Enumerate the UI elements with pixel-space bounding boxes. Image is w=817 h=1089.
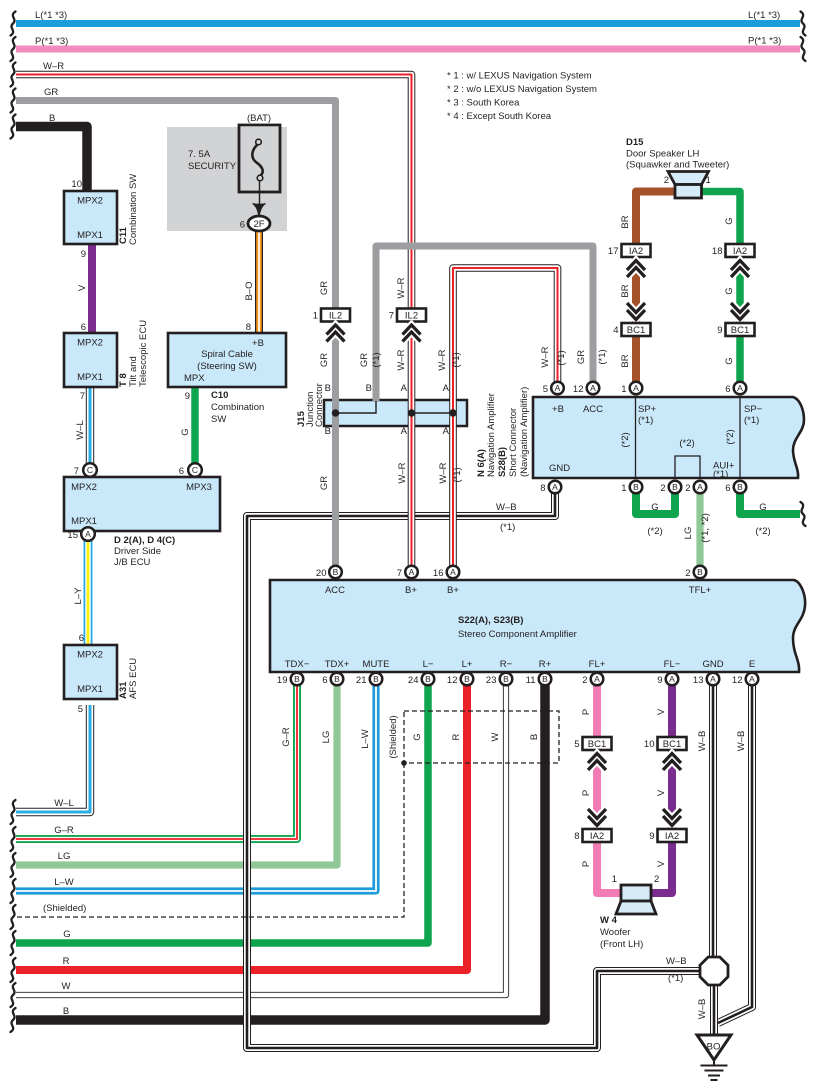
svg-text:B+: B+ (447, 585, 459, 596)
svg-text:IA2: IA2 (590, 831, 604, 842)
svg-text:R: R (63, 956, 70, 967)
svg-text:18: 18 (712, 246, 723, 257)
svg-text:Combination: Combination (211, 402, 264, 413)
svg-text:MPX1: MPX1 (77, 230, 103, 241)
connector 1 IL2 (313, 309, 350, 322)
svg-text:* 4 : Except South Korea: * 4 : Except South Korea (447, 111, 552, 122)
svg-text:B: B (334, 674, 340, 684)
break mark right G (*2) (801, 502, 806, 526)
svg-text:L−: L− (423, 659, 434, 670)
pin 2(B) nav (669, 481, 682, 494)
svg-text:MPX2: MPX2 (71, 482, 97, 493)
svg-text:W–L: W–L (75, 420, 86, 440)
svg-text:FL+: FL+ (589, 659, 606, 670)
svg-text:W–B: W–B (697, 999, 708, 1020)
pin 7(A) amp B+ (405, 566, 418, 579)
wire LG (*1 *2) from nav amp 2(A) to stereo amp TFL+ (696, 493, 703, 566)
svg-text:R−: R− (500, 659, 513, 670)
svg-text:1: 1 (621, 483, 626, 494)
svg-text:GND: GND (549, 463, 570, 474)
svg-text:9: 9 (649, 831, 654, 842)
svg-text:16: 16 (433, 568, 444, 579)
wire W-L from T8 pin 7 to 7(C) (86, 387, 94, 464)
svg-text:B: B (503, 674, 509, 684)
svg-text:J/B ECU: J/B ECU (114, 557, 151, 568)
svg-text:GR: GR (576, 350, 587, 364)
chevron above 9 IA2 (663, 809, 681, 826)
break mark left B (11, 115, 16, 139)
svg-text:(*2): (*2) (725, 429, 736, 444)
splice octagon (700, 957, 728, 985)
svg-text:12: 12 (732, 675, 743, 686)
svg-text:(*1): (*1) (371, 352, 382, 367)
chevron below 5 BC1 (588, 754, 606, 771)
connector 7(C) (83, 463, 97, 477)
svg-text:G: G (180, 428, 191, 435)
svg-text:BO: BO (707, 1042, 721, 1053)
svg-text:MPX2: MPX2 (77, 338, 103, 349)
pin 24(B) amp L- (422, 673, 435, 686)
svg-text:W–B: W–B (736, 731, 747, 752)
svg-text:(*1): (*1) (713, 469, 728, 480)
svg-text:W–R: W–R (540, 346, 551, 367)
svg-text:C: C (87, 465, 93, 475)
wire L-Y from D2 pin 15 to AFS ECU pin 6 (84, 541, 93, 645)
pin 6(A) nav SP- (734, 382, 747, 395)
break mark right L (801, 12, 806, 36)
svg-text:B: B (373, 674, 379, 684)
svg-text:B: B (633, 482, 639, 492)
woofer W4 symbol (616, 885, 656, 914)
wire V from C11 pin 9 to T8 pin 6 (88, 244, 96, 333)
svg-text:V: V (656, 860, 667, 867)
svg-text:9: 9 (657, 675, 662, 686)
svg-text:B: B (294, 674, 300, 684)
svg-text:C10: C10 (211, 390, 228, 401)
svg-text:(*1): (*1) (500, 522, 515, 533)
chevron below 17 IA2 (627, 261, 645, 278)
svg-text:GR: GR (319, 476, 330, 490)
svg-text:A: A (450, 567, 456, 577)
svg-text:1: 1 (612, 874, 617, 885)
svg-text:SW: SW (211, 414, 226, 425)
svg-text:13: 13 (693, 675, 704, 686)
break mark left G (11, 931, 16, 955)
svg-text:B: B (366, 383, 372, 394)
junction connector J15 box (324, 400, 467, 426)
svg-text:7. 5A: 7. 5A (188, 149, 211, 160)
svg-text:L+: L+ (462, 659, 473, 670)
svg-text:A: A (443, 426, 450, 437)
svg-text:A: A (697, 482, 703, 492)
svg-text:6: 6 (725, 483, 730, 494)
ground BO triangle (697, 1035, 731, 1060)
break mark left G-R (11, 827, 16, 851)
wire G (*2) U-link between nav amp 1(B) and 2(B) (636, 493, 675, 514)
break mark right P (801, 37, 806, 61)
chevron above 4 BC1 (627, 303, 645, 320)
svg-text:G: G (724, 287, 735, 294)
wire W-L from AFS ECU pin 5 to left edge (16, 705, 90, 812)
wire W-B from splice to ground BO (710, 984, 718, 1036)
svg-text:B: B (425, 674, 431, 684)
svg-text:+B: +B (552, 404, 564, 415)
svg-text:FL−: FL− (664, 659, 681, 670)
svg-text:(*1): (*1) (638, 415, 653, 426)
svg-text:E: E (749, 659, 755, 670)
svg-text:G–R: G–R (281, 727, 292, 747)
svg-text:G–R: G–R (54, 825, 74, 836)
svg-text:Stereo Component Amplifier: Stereo Component Amplifier (458, 629, 577, 640)
svg-text:1: 1 (313, 311, 318, 322)
nav amp internal link 1(A)-1(B) (*2) (635, 397, 637, 478)
svg-text:G: G (724, 217, 735, 224)
pin 12(B) amp L+ (461, 673, 474, 686)
break mark left LG (11, 853, 16, 877)
svg-text:* 1 : w/ LEXUS Navigation Syst: * 1 : w/ LEXUS Navigation System (447, 71, 592, 82)
connector 8 IA2 (574, 829, 611, 842)
svg-text:Spiral Cable: Spiral Cable (201, 349, 253, 360)
svg-text:Navigation Amplifier: Navigation Amplifier (486, 393, 497, 477)
svg-text:8: 8 (540, 483, 545, 494)
svg-text:19: 19 (277, 675, 288, 686)
svg-text:A: A (443, 383, 450, 394)
chevron below 7 IL2 (403, 325, 421, 342)
navigation amplifier N6(A)/S28(B) box (533, 397, 804, 478)
svg-text:A: A (669, 674, 675, 684)
svg-text:2: 2 (664, 175, 669, 186)
svg-text:(BAT): (BAT) (247, 113, 271, 124)
svg-text:B: B (333, 567, 339, 577)
svg-text:9: 9 (185, 391, 190, 402)
svg-text:6: 6 (179, 466, 184, 477)
wire W-B (*1) from navigation amplifier GND to splice (247, 493, 700, 1048)
pin 9(A) amp FL- (666, 673, 679, 686)
wire B from left edge to combination SW pin 10 (16, 127, 87, 192)
wire G (*2) from nav amp 6(B) to right edge (740, 493, 800, 514)
wire BR from door speaker pin 2 to nav amp SP+ (636, 192, 676, 383)
svg-text:P: P (581, 709, 592, 715)
svg-text:(*1): (*1) (452, 467, 463, 482)
svg-text:+B: +B (252, 338, 264, 349)
tilt and telescopic ECU T8 box (64, 333, 117, 387)
svg-text:ACC: ACC (325, 585, 345, 596)
fuse element symbol (252, 145, 262, 176)
svg-text:V: V (656, 708, 667, 715)
connector 7 IL2 (389, 309, 426, 322)
svg-text:7: 7 (389, 311, 394, 322)
svg-text:(*2): (*2) (755, 526, 770, 537)
svg-text:Combination SW: Combination SW (128, 174, 139, 245)
svg-text:6: 6 (725, 384, 730, 395)
svg-text:A: A (737, 383, 743, 393)
svg-text:9: 9 (81, 249, 86, 260)
svg-text:B: B (325, 426, 331, 437)
driver side J/B ECU D2 box (64, 477, 220, 531)
svg-text:MPX3: MPX3 (186, 482, 212, 493)
svg-text:A: A (409, 567, 415, 577)
svg-text:G: G (412, 733, 423, 740)
svg-text:SP+: SP+ (638, 404, 657, 415)
svg-text:15: 15 (67, 530, 78, 541)
svg-text:5: 5 (543, 384, 548, 395)
svg-text:2: 2 (685, 483, 690, 494)
svg-text:W–R: W–R (43, 61, 64, 72)
wire W-B from stereo amp GND to splice (709, 685, 717, 958)
svg-text:TFL+: TFL+ (689, 585, 712, 596)
pin 12(A) amp E (746, 673, 759, 686)
svg-text:B: B (464, 674, 470, 684)
svg-text:(Navigation Amplifier): (Navigation Amplifier) (519, 387, 530, 477)
combination SW C11 box (64, 191, 117, 244)
svg-text:6: 6 (81, 322, 86, 333)
pin 19(B) amp TDX- (291, 673, 304, 686)
wire B-O from fuse 2F to spiral cable +B (255, 231, 263, 333)
svg-text:G: G (63, 929, 70, 940)
connector 9 IA2 (649, 829, 686, 842)
wire G from door speaker pin 1 to nav amp SP- (701, 192, 740, 383)
wire G from L- to left edge (16, 685, 428, 943)
svg-text:D 2(A), D 4(C): D 2(A), D 4(C) (114, 535, 175, 546)
svg-text:(Shielded): (Shielded) (43, 903, 86, 914)
svg-text:A: A (710, 674, 716, 684)
wire LG from TDX+ to left edge (16, 685, 337, 865)
svg-text:(*1): (*1) (668, 973, 683, 984)
svg-text:2: 2 (685, 568, 690, 579)
wire W-R (*1) from navigation amplifier +B through J15 to stereo amp B+ (453, 268, 558, 566)
svg-text:G: G (759, 502, 766, 513)
svg-text:6: 6 (322, 675, 327, 686)
svg-text:17: 17 (608, 246, 619, 257)
svg-text:B: B (325, 383, 331, 394)
svg-text:W–L: W–L (54, 798, 74, 809)
svg-text:A: A (85, 529, 91, 539)
svg-text:20: 20 (316, 568, 327, 579)
svg-text:LG: LG (683, 527, 694, 540)
svg-text:24: 24 (408, 675, 419, 686)
pin 16(A) amp B+ (447, 566, 460, 579)
svg-text:B: B (63, 1006, 69, 1017)
chevron above 9 BC1 (731, 303, 749, 320)
AFS ECU A31 box (64, 645, 117, 699)
wire L-W from MUTE to left edge (16, 685, 376, 891)
svg-text:V: V (77, 284, 88, 291)
svg-text:V: V (656, 789, 667, 796)
chevron below 18 IA2 (731, 261, 749, 278)
svg-text:1: 1 (621, 384, 626, 395)
wire P from stereo amp FL+ to woofer pin 1 (597, 685, 622, 893)
svg-text:BC1: BC1 (731, 325, 749, 336)
wire R from L+ to left edge (16, 685, 467, 970)
svg-text:A: A (401, 426, 408, 437)
svg-text:L(*1 *3): L(*1 *3) (35, 10, 67, 21)
svg-text:SECURITY: SECURITY (188, 161, 237, 172)
chevron below 10 BC1 (663, 754, 681, 771)
svg-text:S28(B): S28(B) (497, 447, 508, 477)
svg-text:C: C (192, 465, 198, 475)
svg-text:A: A (590, 383, 596, 393)
pin 8(A) nav GND (549, 481, 562, 494)
nav amp internal link 2(B)-2(A) (*2) (675, 456, 700, 478)
connector 18 IA2 (712, 244, 755, 257)
pin 2(A) nav (694, 481, 707, 494)
svg-text:(*2): (*2) (620, 432, 631, 447)
svg-text:Woofer: Woofer (600, 927, 630, 938)
wire G-R from TDX- to left edge (16, 685, 297, 839)
break mark left P (11, 37, 16, 61)
wire P pink horizontal (16, 46, 800, 53)
svg-text:21: 21 (356, 675, 367, 686)
pin 2(B) amp TFL+ (694, 566, 707, 579)
pin 11(B) amp R+ (539, 673, 552, 686)
svg-text:8: 8 (574, 831, 579, 842)
svg-text:Driver Side: Driver Side (114, 546, 161, 557)
svg-text:L–W: L–W (54, 877, 74, 888)
svg-text:11: 11 (526, 675, 536, 686)
svg-text:B: B (697, 567, 703, 577)
svg-text:L(*1 *3): L(*1 *3) (748, 10, 780, 21)
svg-text:2: 2 (660, 483, 665, 494)
svg-text:IA2: IA2 (665, 831, 679, 842)
pin 1(B) nav (630, 481, 643, 494)
svg-text:L–Y: L–Y (73, 587, 84, 605)
svg-text:P(*1 *3): P(*1 *3) (35, 36, 68, 47)
svg-text:BR: BR (620, 354, 631, 367)
fuse area shading (167, 127, 287, 231)
svg-text:GR: GR (319, 353, 330, 367)
connector 10 BC1 (644, 737, 687, 750)
svg-text:(*1, *2): (*1, *2) (700, 513, 711, 543)
svg-text:B: B (542, 674, 548, 684)
svg-text:BR: BR (620, 215, 631, 228)
svg-text:A: A (749, 674, 755, 684)
door speaker D15 symbol (668, 172, 709, 199)
svg-text:4: 4 (613, 325, 618, 336)
svg-text:W–B: W–B (496, 502, 517, 513)
wire W-R from left edge through IL2 and J15 to stereo amp B+ (16, 75, 412, 567)
svg-text:(*1): (*1) (556, 350, 567, 365)
chevron below 1 IL2 (327, 325, 345, 342)
svg-text:MPX1: MPX1 (77, 684, 103, 695)
svg-text:12: 12 (447, 675, 458, 686)
pin 13(A) amp GND (707, 673, 720, 686)
svg-text:A: A (401, 383, 408, 394)
svg-text:(*1): (*1) (744, 415, 759, 426)
svg-text:SP−: SP− (744, 404, 763, 415)
pin 20(B) amp ACC (329, 566, 342, 579)
ground symbol (701, 1060, 728, 1080)
fuse 7.5A SECURITY box (239, 125, 280, 192)
svg-text:TDX−: TDX− (285, 659, 310, 670)
shielded cable dashed outline (16, 711, 559, 917)
svg-text:* 2 : w/o LEXUS Navigation Sys: * 2 : w/o LEXUS Navigation System (447, 84, 597, 95)
connector 2F oval (240, 216, 270, 231)
svg-text:MPX2: MPX2 (77, 196, 103, 207)
svg-text:2F: 2F (253, 219, 264, 230)
svg-text:6: 6 (240, 220, 245, 231)
pin 5(A) nav +B (551, 382, 564, 395)
pin 1(A) nav SP+ (630, 382, 643, 395)
svg-text:G: G (724, 357, 735, 364)
pin 6(B) nav (734, 481, 747, 494)
svg-text:12: 12 (573, 384, 584, 395)
svg-text:MPX2: MPX2 (77, 650, 103, 661)
svg-text:MUTE: MUTE (363, 659, 390, 670)
wire W from R- to left edge (16, 685, 506, 995)
svg-text:5: 5 (78, 704, 83, 715)
svg-text:Door Speaker LH: Door Speaker LH (626, 149, 700, 160)
svg-text:MPX: MPX (184, 373, 205, 384)
svg-text:A: A (633, 383, 639, 393)
arrow from fuse to 2F (259, 180, 261, 206)
svg-text:7: 7 (74, 466, 79, 477)
pin 12(A) nav ACC (587, 382, 600, 395)
svg-text:P: P (581, 861, 592, 867)
pin 2(A) amp FL+ (591, 673, 604, 686)
connector 9 BC1 (717, 323, 754, 336)
svg-text:Connector: Connector (314, 383, 325, 427)
connector 5 BC1 (574, 737, 611, 750)
connector 6(C) (188, 463, 202, 477)
svg-text:A: A (594, 674, 600, 684)
svg-text:R+: R+ (539, 659, 552, 670)
svg-text:GR: GR (44, 87, 58, 98)
svg-text:TDX+: TDX+ (325, 659, 350, 670)
svg-text:10: 10 (71, 179, 82, 190)
svg-text:10: 10 (644, 739, 655, 750)
break mark left B (11, 1008, 16, 1032)
svg-text:(*2): (*2) (647, 526, 662, 537)
svg-text:P(*1 *3): P(*1 *3) (748, 36, 781, 47)
nav amp internal link 6(A)-6(B) (*2) (739, 397, 741, 478)
svg-text:W–R: W–R (437, 349, 448, 370)
svg-text:LG: LG (321, 731, 332, 744)
svg-text:A: A (555, 383, 561, 393)
svg-text:W–R: W–R (397, 462, 408, 483)
pin 23(B) amp R- (500, 673, 513, 686)
chevron above 8 IA2 (588, 809, 606, 826)
svg-text:W: W (62, 981, 71, 992)
wire B from R+ to left edge (16, 685, 545, 1020)
svg-text:7: 7 (80, 391, 85, 402)
svg-text:8: 8 (246, 322, 251, 333)
connector 17 IA2 (608, 244, 651, 257)
svg-text:MPX1: MPX1 (77, 372, 103, 383)
svg-text:B: B (737, 482, 743, 492)
wire V from stereo amp FL- to woofer pin 2 (650, 685, 672, 893)
J15 internal links (333, 401, 457, 416)
svg-text:S22(A), S23(B): S22(A), S23(B) (458, 615, 523, 626)
wire W-B from stereo amp E to ground junction (718, 685, 752, 1023)
svg-text:7: 7 (397, 568, 402, 579)
break mark left L (11, 12, 16, 36)
svg-text:BC1: BC1 (627, 325, 645, 336)
svg-text:(Steering SW): (Steering SW) (197, 361, 257, 372)
svg-text:2: 2 (654, 874, 659, 885)
svg-text:(Shielded): (Shielded) (388, 715, 399, 758)
svg-text:1: 1 (706, 175, 711, 186)
svg-text:(Squawker and Tweeter): (Squawker and Tweeter) (626, 160, 729, 171)
connector 15(A) (81, 527, 95, 541)
break mark left W-R (11, 63, 16, 87)
svg-text:GND: GND (702, 659, 723, 670)
svg-text:(*1): (*1) (451, 352, 462, 367)
connector 4 BC1 (613, 323, 650, 336)
svg-text:(*2): (*2) (679, 438, 694, 449)
svg-text:W–B: W–B (666, 956, 687, 967)
break mark left R (11, 958, 16, 982)
svg-text:B: B (49, 113, 55, 124)
